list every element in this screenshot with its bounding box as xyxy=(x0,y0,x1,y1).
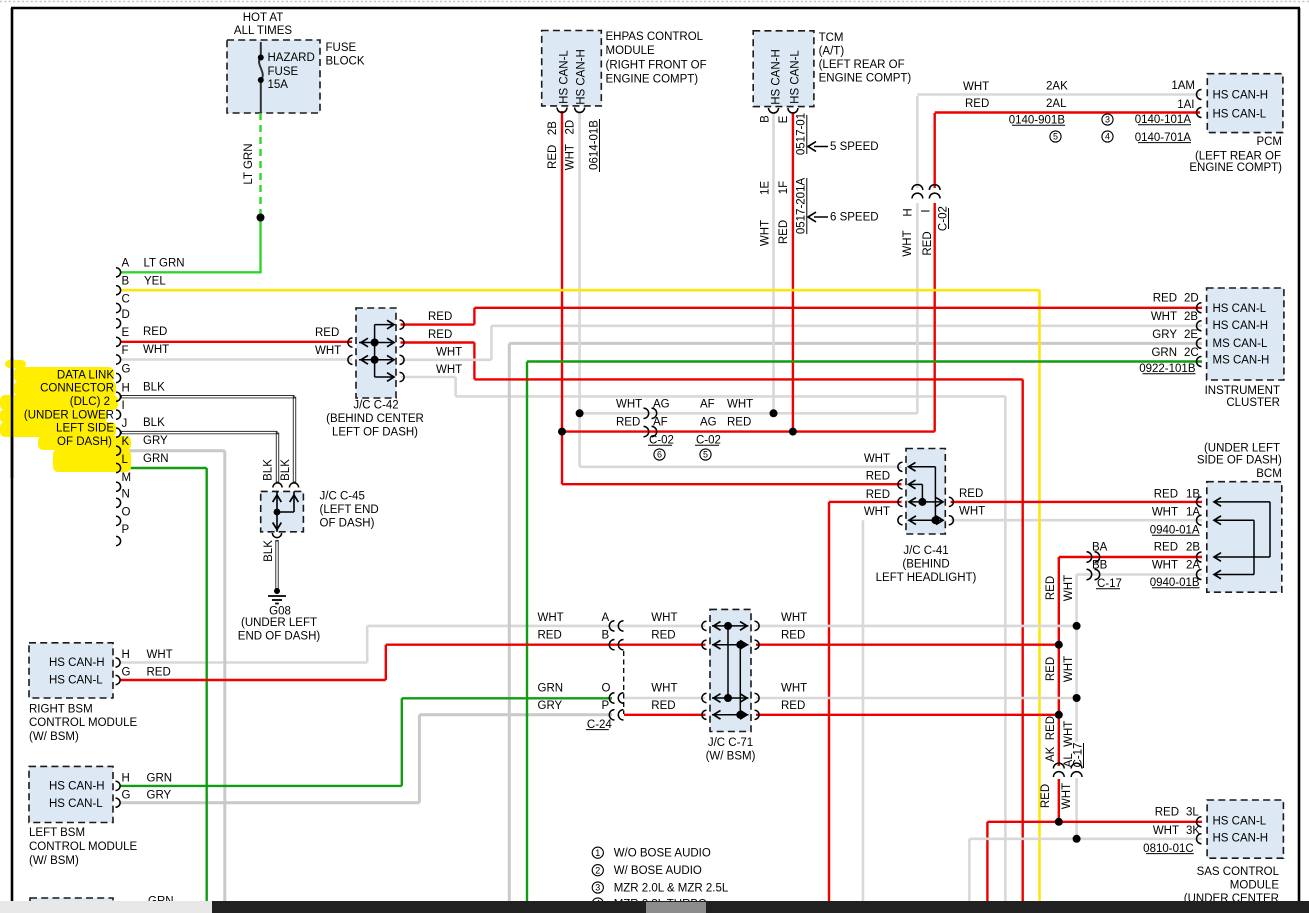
svg-text:FUSE: FUSE xyxy=(326,42,357,54)
svg-text:B: B xyxy=(760,115,772,123)
svg-text:MS CAN-L: MS CAN-L xyxy=(1213,338,1269,350)
svg-text:1B: 1B xyxy=(1186,488,1200,500)
svg-text:WHT: WHT xyxy=(651,683,677,695)
svg-text:CONNECTOR: CONNECTOR xyxy=(40,383,114,395)
svg-text:0140-701A: 0140-701A xyxy=(1135,132,1192,144)
svg-text:RED: RED xyxy=(922,231,934,255)
svg-text:MZR 2.0L & MZR 2.5L: MZR 2.0L & MZR 2.5L xyxy=(614,883,729,895)
svg-text:W/O BOSE AUDIO: W/O BOSE AUDIO xyxy=(614,848,711,860)
svg-text:W/ BOSE AUDIO: W/ BOSE AUDIO xyxy=(614,865,702,877)
svg-text:(LEFT REAR OF: (LEFT REAR OF xyxy=(819,59,905,71)
svg-text:G: G xyxy=(122,364,131,376)
svg-text:0940-01A: 0940-01A xyxy=(1150,525,1200,537)
svg-text:RED: RED xyxy=(1154,488,1178,500)
svg-text:(W/ BSM): (W/ BSM) xyxy=(29,855,79,867)
svg-text:C-17: C-17 xyxy=(1097,578,1122,590)
svg-text:SIDE OF DASH): SIDE OF DASH) xyxy=(1197,455,1282,467)
svg-text:(RIGHT FRONT OF: (RIGHT FRONT OF xyxy=(606,60,707,72)
svg-text:RED: RED xyxy=(428,311,452,323)
svg-text:WHT: WHT xyxy=(1063,656,1075,682)
svg-text:HS CAN-H: HS CAN-H xyxy=(771,49,783,105)
svg-text:RIGHT BSM: RIGHT BSM xyxy=(29,704,93,716)
svg-text:A: A xyxy=(602,612,610,624)
svg-text:0922-101B: 0922-101B xyxy=(1139,363,1196,375)
svg-text:HS CAN-L: HS CAN-L xyxy=(49,674,103,686)
svg-text:WHT 2D: WHT 2D xyxy=(565,120,577,170)
svg-text:RED: RED xyxy=(428,329,452,341)
svg-text:5: 5 xyxy=(1053,132,1058,142)
svg-text:ENGINE COMPT): ENGINE COMPT) xyxy=(819,73,912,85)
svg-text:(W/ BSM): (W/ BSM) xyxy=(29,731,79,743)
svg-text:I: I xyxy=(921,209,933,212)
svg-text:J/C C-45: J/C C-45 xyxy=(320,491,365,503)
svg-text:(LEFT END: (LEFT END xyxy=(320,504,379,516)
svg-text:M: M xyxy=(122,472,132,484)
svg-text:2AK: 2AK xyxy=(1046,81,1068,93)
svg-text:LT GRN: LT GRN xyxy=(243,143,255,184)
svg-text:(W/ BSM): (W/ BSM) xyxy=(706,751,756,763)
svg-text:RED: RED xyxy=(1040,784,1052,808)
svg-text:CLUSTER: CLUSTER xyxy=(1226,397,1280,409)
svg-text:AG: AG xyxy=(653,398,670,410)
svg-text:WHT: WHT xyxy=(1153,825,1179,837)
svg-text:ENGINE COMPT): ENGINE COMPT) xyxy=(1189,162,1282,174)
svg-text:RED 2B: RED 2B xyxy=(547,121,559,169)
svg-text:6 SPEED: 6 SPEED xyxy=(830,212,879,224)
svg-text:WHT: WHT xyxy=(538,612,564,624)
svg-text:END OF DASH): END OF DASH) xyxy=(238,630,321,642)
svg-text:HS CAN-L: HS CAN-L xyxy=(1213,816,1267,828)
svg-text:L: L xyxy=(122,454,129,466)
svg-text:H: H xyxy=(122,382,130,394)
svg-text:E: E xyxy=(122,327,130,339)
svg-text:WHT: WHT xyxy=(959,506,985,518)
svg-text:HOT AT: HOT AT xyxy=(243,12,283,24)
svg-text:WHT: WHT xyxy=(902,230,914,256)
svg-text:2B: 2B xyxy=(1186,542,1200,554)
svg-text:(LEFT REAR OF: (LEFT REAR OF xyxy=(1195,151,1281,163)
svg-text:2AL: 2AL xyxy=(1046,98,1067,110)
svg-text:RED: RED xyxy=(315,327,339,339)
svg-text:RED: RED xyxy=(781,630,805,642)
svg-text:AG: AG xyxy=(700,417,717,429)
svg-text:1AM: 1AM xyxy=(1171,80,1195,92)
svg-text:15A: 15A xyxy=(268,79,289,91)
svg-text:WHT: WHT xyxy=(864,453,890,465)
svg-text:CONTROL MODULE: CONTROL MODULE xyxy=(29,841,138,853)
svg-text:WHT: WHT xyxy=(781,683,807,695)
svg-text:H: H xyxy=(903,208,915,216)
svg-text:C-02: C-02 xyxy=(649,435,674,447)
svg-text:WHT: WHT xyxy=(864,506,890,518)
svg-text:RED: RED xyxy=(965,98,989,110)
svg-text:(UNDER LEFT: (UNDER LEFT xyxy=(241,617,317,629)
svg-text:HS CAN-H: HS CAN-H xyxy=(49,780,105,792)
svg-text:G: G xyxy=(122,667,131,679)
svg-text:(DLC) 2: (DLC) 2 xyxy=(70,396,110,408)
svg-text:K: K xyxy=(122,436,130,448)
svg-text:MODULE: MODULE xyxy=(1230,879,1280,891)
svg-text:B: B xyxy=(602,630,610,642)
svg-text:RED: RED xyxy=(616,417,640,429)
svg-text:5: 5 xyxy=(703,450,708,460)
svg-text:2: 2 xyxy=(595,865,600,875)
svg-text:RED: RED xyxy=(1045,657,1057,681)
svg-text:BLK: BLK xyxy=(143,417,165,429)
svg-text:EHPAS CONTROL: EHPAS CONTROL xyxy=(606,31,704,43)
svg-text:OF DASH): OF DASH) xyxy=(320,518,375,530)
svg-text:BLK: BLK xyxy=(263,540,275,562)
svg-text:YEL: YEL xyxy=(144,275,166,287)
svg-text:GRY: GRY xyxy=(538,700,563,712)
svg-text:HS CAN-H: HS CAN-H xyxy=(1213,90,1269,102)
svg-text:RED: RED xyxy=(538,630,562,642)
svg-text:0940-01B: 0940-01B xyxy=(1150,577,1200,589)
svg-text:3L: 3L xyxy=(1186,807,1199,819)
svg-text:PCM: PCM xyxy=(1256,136,1282,148)
svg-text:WHT: WHT xyxy=(781,612,807,624)
svg-text:HAZARD: HAZARD xyxy=(268,52,315,64)
svg-text:O: O xyxy=(602,683,611,695)
svg-text:(BEHIND CENTER: (BEHIND CENTER xyxy=(326,413,424,425)
svg-text:G: G xyxy=(122,790,131,802)
svg-text:RED: RED xyxy=(866,489,890,501)
svg-text:C-02: C-02 xyxy=(696,435,721,447)
svg-text:(A/T): (A/T) xyxy=(819,46,845,58)
svg-text:GRN: GRN xyxy=(143,453,169,465)
svg-text:G08: G08 xyxy=(269,605,291,617)
svg-text:A: A xyxy=(122,258,130,270)
svg-text:P: P xyxy=(122,524,130,536)
svg-text:C: C xyxy=(122,294,130,306)
svg-text:1AI: 1AI xyxy=(1177,99,1194,111)
svg-text:RED: RED xyxy=(1155,807,1179,819)
svg-text:3K: 3K xyxy=(1186,825,1200,837)
svg-text:RED: RED xyxy=(866,471,890,483)
svg-text:1: 1 xyxy=(595,848,600,858)
svg-text:0810-01C: 0810-01C xyxy=(1143,843,1194,855)
svg-text:BLK: BLK xyxy=(143,381,165,393)
svg-text:HS CAN-H: HS CAN-H xyxy=(576,49,588,105)
svg-text:E: E xyxy=(778,115,790,123)
svg-text:0517-201A: 0517-201A xyxy=(796,178,808,235)
svg-text:WHT: WHT xyxy=(1152,560,1178,572)
svg-text:WHT: WHT xyxy=(651,612,677,624)
svg-text:DATA LINK: DATA LINK xyxy=(57,369,114,381)
svg-text:GRN: GRN xyxy=(1151,347,1177,359)
svg-text:1A: 1A xyxy=(1186,507,1200,519)
svg-text:AK RED: AK RED xyxy=(1045,716,1057,762)
svg-text:BCM: BCM xyxy=(1256,468,1282,480)
svg-text:WHT: WHT xyxy=(436,347,462,359)
svg-text:MS CAN-H: MS CAN-H xyxy=(1213,355,1270,367)
svg-text:3: 3 xyxy=(1105,115,1110,125)
svg-text:J: J xyxy=(122,418,128,430)
svg-text:HS CAN-H: HS CAN-H xyxy=(1213,320,1269,332)
svg-text:BLK: BLK xyxy=(263,459,275,481)
svg-text:GRY: GRY xyxy=(1152,329,1177,341)
svg-text:LEFT BSM: LEFT BSM xyxy=(29,827,85,839)
svg-text:WHT: WHT xyxy=(1152,507,1178,519)
svg-text:RED: RED xyxy=(651,700,675,712)
svg-text:AF: AF xyxy=(700,398,715,410)
svg-text:C-02: C-02 xyxy=(938,206,950,231)
svg-text:WHT: WHT xyxy=(147,649,173,661)
svg-text:WHT: WHT xyxy=(1061,783,1073,809)
svg-text:HS CAN-L: HS CAN-L xyxy=(790,50,802,104)
svg-text:HS CAN-L: HS CAN-L xyxy=(1213,108,1267,120)
svg-text:4: 4 xyxy=(1105,132,1110,142)
svg-text:INSTRUMENT: INSTRUMENT xyxy=(1205,385,1280,397)
svg-text:CONTROL MODULE: CONTROL MODULE xyxy=(29,717,138,729)
svg-text:J/C C-41: J/C C-41 xyxy=(903,545,948,557)
svg-text:RED: RED xyxy=(143,326,167,338)
svg-text:2C: 2C xyxy=(1184,347,1199,359)
svg-text:2A: 2A xyxy=(1186,560,1200,572)
svg-text:GRY: GRY xyxy=(143,435,168,447)
svg-text:P: P xyxy=(602,700,610,712)
svg-text:2D: 2D xyxy=(1184,293,1199,305)
svg-text:1F: 1F xyxy=(778,181,790,194)
svg-text:(BEHIND: (BEHIND xyxy=(902,559,949,571)
svg-text:LEFT SIDE: LEFT SIDE xyxy=(56,423,114,435)
svg-text:WHT: WHT xyxy=(315,345,341,357)
svg-text:RED: RED xyxy=(727,417,751,429)
svg-text:BA: BA xyxy=(1092,542,1108,554)
svg-text:RED: RED xyxy=(959,488,983,500)
svg-text:BLOCK: BLOCK xyxy=(326,56,365,68)
svg-text:SAS CONTROL: SAS CONTROL xyxy=(1197,866,1280,878)
svg-text:D: D xyxy=(122,309,130,321)
svg-text:FUSE: FUSE xyxy=(268,66,299,78)
svg-text:RED: RED xyxy=(778,220,790,244)
svg-text:HS CAN-H: HS CAN-H xyxy=(49,657,105,669)
svg-text:BB: BB xyxy=(1092,560,1108,572)
svg-text:HS CAN-H: HS CAN-H xyxy=(1213,832,1269,844)
svg-text:LT GRN: LT GRN xyxy=(144,257,185,269)
svg-text:WHT: WHT xyxy=(616,398,642,410)
svg-text:C-24: C-24 xyxy=(587,719,613,731)
svg-text:RED: RED xyxy=(1154,542,1178,554)
svg-text:RED: RED xyxy=(1153,293,1177,305)
svg-text:0614-01B: 0614-01B xyxy=(589,120,601,170)
svg-text:(UNDER LOWER: (UNDER LOWER xyxy=(24,409,114,421)
svg-text:B: B xyxy=(122,275,130,287)
svg-text:AF: AF xyxy=(653,417,668,429)
svg-text:0517-01: 0517-01 xyxy=(796,113,808,155)
svg-text:WHT: WHT xyxy=(1151,311,1177,323)
svg-text:RED: RED xyxy=(651,630,675,642)
svg-text:HS CAN-L: HS CAN-L xyxy=(559,50,571,104)
svg-text:RED: RED xyxy=(781,700,805,712)
svg-text:(UNDER LEFT: (UNDER LEFT xyxy=(1204,443,1280,455)
svg-text:ENGINE COMPT): ENGINE COMPT) xyxy=(606,74,699,86)
svg-text:H: H xyxy=(122,649,130,661)
svg-text:WHT: WHT xyxy=(436,364,462,376)
svg-text:GRN: GRN xyxy=(538,683,564,695)
svg-text:HS CAN-L: HS CAN-L xyxy=(49,798,103,810)
svg-text:J/C C-42: J/C C-42 xyxy=(353,400,398,412)
svg-text:RED: RED xyxy=(147,667,171,679)
svg-text:BLK: BLK xyxy=(280,459,292,481)
svg-text:1E: 1E xyxy=(760,181,772,195)
svg-text:2B: 2B xyxy=(1184,311,1198,323)
svg-text:3: 3 xyxy=(595,883,600,893)
svg-text:LEFT OF DASH): LEFT OF DASH) xyxy=(332,427,418,439)
svg-text:ALL TIMES: ALL TIMES xyxy=(234,25,292,37)
svg-text:LEFT HEADLIGHT): LEFT HEADLIGHT) xyxy=(876,572,977,584)
svg-text:WHT: WHT xyxy=(1063,575,1075,601)
svg-text:5 SPEED: 5 SPEED xyxy=(830,141,879,153)
svg-text:WHT: WHT xyxy=(143,344,169,356)
svg-text:GRY: GRY xyxy=(147,790,172,802)
svg-text:0140-101A: 0140-101A xyxy=(1135,114,1192,126)
svg-text:2E: 2E xyxy=(1184,329,1198,341)
svg-text:WHT: WHT xyxy=(727,398,753,410)
svg-text:0140-901B: 0140-901B xyxy=(1009,115,1066,127)
svg-text:J/C C-71: J/C C-71 xyxy=(708,737,753,749)
svg-text:C-17: C-17 xyxy=(1073,743,1085,768)
svg-text:H: H xyxy=(122,773,130,785)
svg-text:I: I xyxy=(122,400,125,412)
svg-text:6: 6 xyxy=(657,450,662,460)
svg-text:WHT: WHT xyxy=(963,81,989,93)
svg-text:MODULE: MODULE xyxy=(606,45,656,57)
svg-text:TCM: TCM xyxy=(819,32,844,44)
svg-text:HS CAN-L: HS CAN-L xyxy=(1213,303,1267,315)
svg-text:RED: RED xyxy=(1045,576,1057,600)
svg-text:O: O xyxy=(122,506,131,518)
svg-text:F: F xyxy=(122,345,129,357)
svg-text:OF DASH): OF DASH) xyxy=(57,436,112,448)
svg-text:N: N xyxy=(122,488,130,500)
svg-text:GRN: GRN xyxy=(147,773,173,785)
svg-text:WHT: WHT xyxy=(760,220,772,246)
